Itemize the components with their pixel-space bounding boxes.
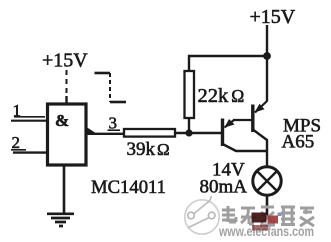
ground symbol: [47, 214, 74, 226]
wire R1 to node: [175, 132, 221, 134]
lamp cross stroke 1: [257, 171, 277, 191]
transistor Q2 collector: [254, 130, 268, 167]
wire R2 top to +15V rail: [189, 56, 267, 71]
transistor Q2 emitter: [255, 101, 267, 113]
transistor Q1 emitter diagonal: [225, 120, 235, 128]
gate U1 MC14011 body: [48, 104, 87, 165]
transistor Q1 base bar: [221, 119, 224, 147]
wire +15V down to Q2 emitter: [266, 25, 268, 102]
svg-text:A65: A65: [282, 132, 315, 153]
underline of pin 2: [11, 149, 26, 151]
underline of pin 1: [14, 116, 45, 118]
resistor R1 39k body: [124, 129, 175, 137]
svg-text:39kΩ: 39kΩ: [127, 139, 170, 160]
resistor R2 22k body: [185, 71, 195, 118]
gate output wedge: [87, 127, 97, 134]
lamp cross stroke 2: [257, 171, 277, 191]
watermark red stamp: [252, 213, 282, 231]
wire gate output to R1: [87, 133, 124, 135]
junction dot on +15V rail: [263, 52, 271, 60]
wire gate ground lead: [63, 165, 66, 213]
watermark chinese characters: [222, 206, 314, 226]
transistor Q2 base bar: [251, 105, 254, 133]
wire node to R2: [188, 115, 190, 133]
waveform falling edge (dashed): [109, 73, 111, 102]
svg-text:80mA: 80mA: [200, 177, 248, 198]
watermark logo circle: [185, 196, 219, 234]
waveform low level: [110, 101, 126, 104]
junction node A: [185, 129, 192, 136]
transistor Q1 collector: [224, 145, 268, 152]
transistor Q2 emitter arrow: [255, 104, 265, 113]
svg-text:MC14011: MC14011: [91, 177, 166, 198]
wire +15V to gate Vdd (dashed): [66, 70, 68, 97]
svg-text:+15V: +15V: [250, 6, 296, 28]
underline of pin 3: [108, 129, 121, 131]
wire input 2: [13, 151, 48, 153]
lamp body: [253, 167, 281, 195]
wire lamp bottom: [266, 195, 269, 216]
svg-text:+15V: +15V: [42, 50, 88, 72]
svg-text:&: &: [55, 111, 69, 130]
svg-text:22kΩ: 22kΩ: [198, 85, 245, 107]
wire gate Vdd stub: [65, 96, 67, 104]
transistor Q1 emitter arrow: [225, 119, 235, 128]
wire input 1: [11, 120, 48, 122]
waveform input pulse high level: [95, 72, 111, 75]
wire Q1 emitter to Q2 base: [233, 119, 252, 121]
